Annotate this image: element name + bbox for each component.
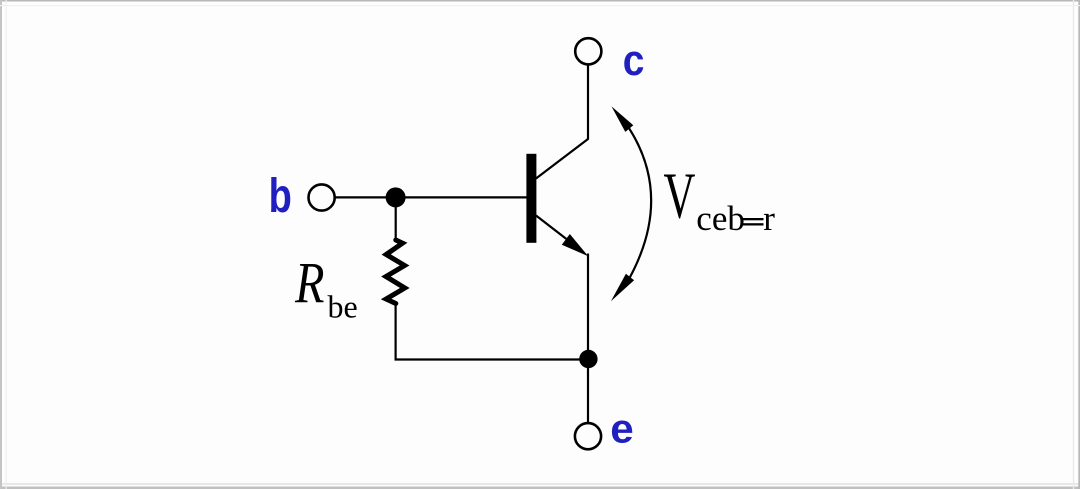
wire collector vertical xyxy=(587,65,589,140)
svg-text:be: be xyxy=(328,288,358,324)
terminal b xyxy=(309,184,335,210)
svg-text:V: V xyxy=(664,160,696,233)
svg-text:c: c xyxy=(623,36,645,84)
svg-text:b: b xyxy=(269,170,292,223)
wire bottom horizontal xyxy=(395,358,589,360)
svg-text:e: e xyxy=(610,405,633,451)
resistor Rbe xyxy=(386,240,405,304)
terminal e xyxy=(575,423,601,449)
wire base xyxy=(336,196,528,198)
transistor Q1 xyxy=(526,139,588,257)
svg-text:R: R xyxy=(294,250,324,315)
svg-text:r: r xyxy=(763,199,775,238)
label Rbe xyxy=(294,250,358,324)
terminal c xyxy=(575,38,601,64)
label Vceb=r xyxy=(664,160,776,238)
measurement arc Vceb=r double arrow xyxy=(611,106,651,301)
junction emitter node xyxy=(579,350,597,368)
wire emitter vertical xyxy=(587,254,589,423)
wire resistor top xyxy=(395,197,397,239)
wire resistor bottom xyxy=(395,304,397,361)
junction base node xyxy=(386,187,406,207)
svg-text:ceb: ceb xyxy=(696,199,745,238)
